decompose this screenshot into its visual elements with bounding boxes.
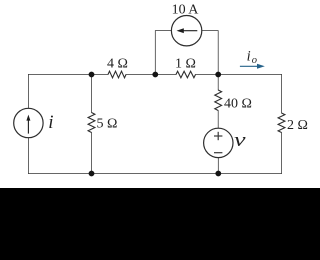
svg-text:5 Ω: 5 Ω [97,117,118,132]
svg-text:1 Ω: 1 Ω [175,57,196,72]
svg-text:o: o [252,55,257,66]
svg-text:40 Ω: 40 Ω [224,97,252,112]
svg-text:4 Ω: 4 Ω [107,57,128,72]
svg-text:2 Ω: 2 Ω [287,118,308,133]
svg-text:i: i [247,48,251,64]
svg-text:v: v [234,129,247,150]
svg-text:i: i [48,112,53,133]
svg-text:10 A: 10 A [172,2,200,17]
